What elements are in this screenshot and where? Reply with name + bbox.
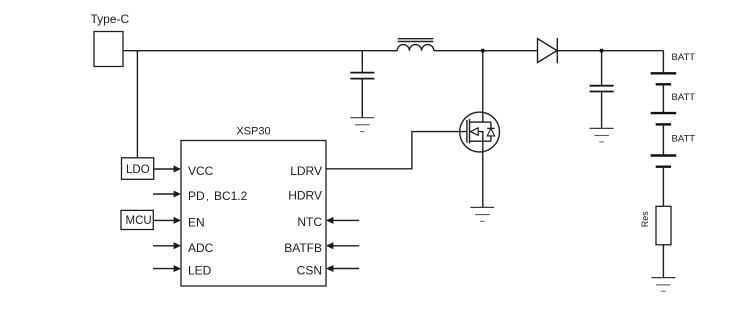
battery cell B1 [651, 73, 677, 84]
svg-text:EN: EN [188, 215, 205, 229]
ground under C1 [350, 118, 374, 132]
svg-text:LED: LED [188, 264, 212, 278]
svg-text:XSP30: XSP30 [236, 126, 270, 138]
wire bus segment 2 (inductor to diode) [434, 50, 538, 52]
svg-text:BATT: BATT [672, 92, 696, 103]
capacitor C1 top lead [361, 51, 363, 72]
svg-text:NTC: NTC [297, 215, 322, 229]
svg-text:PD,BC1.2: PD,BC1.2 [188, 189, 248, 203]
svg-text:ADC: ADC [188, 241, 214, 255]
svg-text:BATT: BATT [672, 133, 696, 144]
wire bus segment 1 (Type-C to inductor) [123, 50, 397, 52]
ground under resistor [651, 278, 675, 292]
arrow into BATFB pin [326, 242, 359, 249]
diode D1 [538, 38, 558, 63]
arrow MCU to EN [153, 217, 181, 224]
arrow into NTC pin [326, 217, 359, 224]
svg-text:Type-C: Type-C [91, 12, 130, 26]
block MCU [121, 210, 153, 229]
IC U1 XSP30 body [181, 141, 326, 287]
block LDO [122, 158, 154, 180]
connector J1 Type-C [94, 32, 123, 67]
arrow into ADC pin [153, 242, 181, 249]
wire B1 to B2 [662, 84, 664, 113]
capacitor C2 [590, 86, 614, 92]
svg-text:BATT: BATT [672, 52, 696, 63]
ground under C2 [590, 128, 614, 142]
svg-text:BATFB: BATFB [284, 241, 322, 255]
wire B3 to resistor [662, 167, 664, 207]
svg-text:Res: Res [640, 211, 650, 228]
svg-text:LDRV: LDRV [290, 164, 322, 178]
capacitor C2 bottom lead [601, 92, 603, 128]
battery cell B2 [651, 113, 677, 124]
arrow into CSN pin [326, 265, 359, 272]
ground under Q1 [470, 207, 494, 221]
battery cell B3 [651, 156, 677, 167]
svg-text:CSN: CSN [297, 264, 322, 278]
wire LDRV to gate [326, 132, 466, 169]
svg-text:HDRV: HDRV [288, 189, 322, 203]
wire drain lead [482, 51, 484, 122]
svg-text:MCU: MCU [126, 215, 152, 227]
svg-text:LDO: LDO [126, 164, 150, 176]
arrow LDO to VCC [154, 166, 181, 173]
junction node SW [481, 49, 485, 53]
arrow into PD pin [153, 191, 181, 198]
wire resistor bottom lead [662, 245, 664, 278]
wire branch to LDO [136, 51, 138, 158]
transistor Q1 NMOS [460, 112, 500, 152]
wire bus segment 3 (diode to battery) [557, 50, 663, 52]
resistor R1 [656, 206, 671, 245]
inductor L1 [397, 39, 434, 51]
wire battery stack top lead [662, 51, 664, 74]
svg-text:VCC: VCC [188, 164, 214, 178]
arrow into LED pin [153, 265, 181, 272]
capacitor C1 [350, 73, 374, 79]
wire B2 to B3 [662, 124, 664, 155]
wire source lead [482, 141, 484, 207]
capacitor C1 bottom lead [361, 79, 363, 117]
junction node VBAT cap tap [600, 49, 604, 53]
capacitor C2 top lead [601, 51, 603, 85]
